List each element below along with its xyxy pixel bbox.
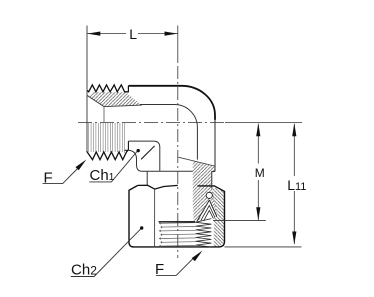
tip face vertical / left extension line xyxy=(86,26,88,152)
nested cone line 2 xyxy=(204,211,214,221)
F leader arrowhead xyxy=(76,160,87,171)
svg-text:F: F xyxy=(155,261,164,278)
leader F (male thread) xyxy=(43,164,82,184)
ball/seat circle xyxy=(206,192,212,198)
dimension L11 line xyxy=(293,124,295,176)
thread runout step (top) xyxy=(127,86,129,93)
internal chamfer diagonal (tip) xyxy=(87,96,104,107)
hatch: male thread section wedge (top half) xyxy=(88,92,142,106)
cone seat line right xyxy=(209,200,217,216)
M top arrow xyxy=(256,123,260,136)
bore line (top half section) xyxy=(104,105,142,107)
dimension L right arrow xyxy=(165,32,178,36)
svg-text:L: L xyxy=(129,26,137,42)
M bottom arrow xyxy=(256,207,260,220)
white cone cut-out above female thread xyxy=(199,201,216,220)
hatch: body stem section (right of vertical centerline) xyxy=(193,161,217,221)
body right edge vertical xyxy=(214,119,216,172)
F bottom arrowhead xyxy=(192,251,203,262)
step body to stem right xyxy=(212,172,215,189)
chamfer-bore edge vertical xyxy=(103,107,105,123)
dimension M line xyxy=(257,124,259,164)
thread runout step (bottom) xyxy=(127,141,129,150)
body bottom face line xyxy=(142,170,193,172)
leader Ch1 (body chamfer) with end dot xyxy=(89,152,137,182)
dimension L line xyxy=(87,33,126,35)
corner chamfer diagonal in body xyxy=(141,146,155,159)
thread flank verticals (elevation lower half) xyxy=(89,123,125,153)
horizontal centerline xyxy=(78,122,225,124)
dimension L left arrow xyxy=(87,32,100,36)
neck left edge below body xyxy=(146,171,148,185)
cone seat line left xyxy=(197,200,210,221)
horizontal centerline extension (solid, to M and L11 dimension lines) xyxy=(225,122,302,124)
body lower-left fillet xyxy=(128,150,141,171)
female thread zigzag right edge xyxy=(196,219,212,247)
inner neck top line and inner elbow curve xyxy=(140,104,198,159)
body top outline and outer elbow curve xyxy=(128,86,215,120)
section break line xyxy=(178,157,214,166)
vertical centerline xyxy=(177,66,179,258)
nested cone line 1 xyxy=(201,206,215,221)
leader Ch2 (nut chamfer) with end dot xyxy=(71,229,141,277)
svg-text:F: F xyxy=(44,170,53,187)
nut outline (hex, elevation left / section right) xyxy=(129,185,225,247)
svg-text:M: M xyxy=(255,166,265,180)
L11 top arrow xyxy=(292,123,296,136)
neck bottom line with corner to inner bend vertical xyxy=(128,141,159,171)
L extension line right xyxy=(177,26,179,64)
female thread start shoulder left xyxy=(159,221,196,223)
hatch: nut right wall section xyxy=(213,187,225,246)
male thread crest zigzag (bottom) xyxy=(87,150,128,159)
female thread lines xyxy=(159,222,195,247)
nut hex facet line xyxy=(154,189,156,247)
nut top edge left xyxy=(138,185,178,189)
nut bottom baseline extension xyxy=(225,246,302,248)
svg-text:Ch2: Ch2 xyxy=(71,262,97,279)
female thread start shoulder right + M extension line xyxy=(213,220,266,222)
leader F (female thread) xyxy=(156,257,195,276)
male bottom edge xyxy=(125,149,129,151)
L11 bottom arrow xyxy=(292,232,296,245)
male thread crest zigzag (top) xyxy=(87,85,128,92)
